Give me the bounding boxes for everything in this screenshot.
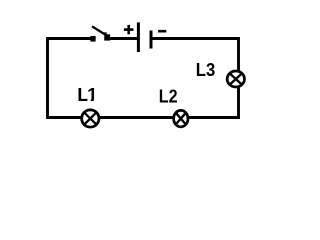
switch S1 right terminal xyxy=(104,34,110,40)
lamp L2 xyxy=(174,110,188,127)
svg-text:L1: L1 xyxy=(77,84,97,105)
battery B1 negative plate (short) xyxy=(150,31,153,49)
switch S1 open-contact gap in top wire xyxy=(96,36,105,43)
battery B1 positive plate (long) xyxy=(137,22,140,52)
lamp L3 xyxy=(227,71,244,87)
switch S1 blade (open) xyxy=(93,27,106,35)
battery B1 polarity label - xyxy=(158,30,166,33)
switch S1 pivot node xyxy=(104,32,107,34)
wire: main circuit loop (top, right, bottom, left segments) xyxy=(48,39,239,118)
svg-text:L2: L2 xyxy=(159,85,178,106)
switch S1 left terminal xyxy=(90,36,95,42)
battery B1 polarity label + xyxy=(124,25,134,34)
lamp L1 xyxy=(82,110,99,127)
svg-text:L3: L3 xyxy=(196,59,215,80)
battery B1 gap in top wire between plates xyxy=(138,36,150,43)
